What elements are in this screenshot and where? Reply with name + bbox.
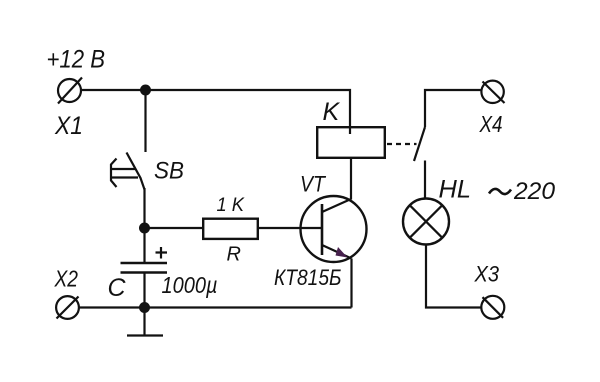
svg-text:1 K: 1 K <box>217 195 246 216</box>
svg-text:HL: HL <box>439 176 472 204</box>
svg-text:1000µ: 1000µ <box>162 272 218 298</box>
svg-text:SB: SB <box>154 158 184 185</box>
svg-text:VT: VT <box>300 172 326 197</box>
svg-text:X4: X4 <box>479 111 503 137</box>
svg-text:+12 В: +12 В <box>47 46 106 74</box>
svg-text:220: 220 <box>513 178 556 205</box>
svg-text:K: K <box>323 98 341 126</box>
svg-text:X1: X1 <box>54 112 83 140</box>
svg-text:X3: X3 <box>474 262 500 287</box>
svg-text:C: C <box>108 274 127 302</box>
svg-text:R: R <box>227 244 241 266</box>
svg-text:X2: X2 <box>54 266 79 292</box>
svg-text:КТ815Б: КТ815Б <box>274 265 342 290</box>
